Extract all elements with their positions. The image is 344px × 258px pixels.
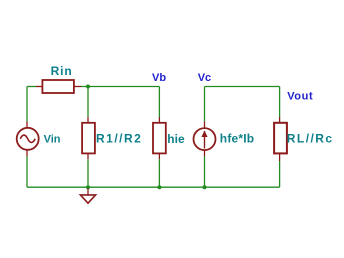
wire RL//Rc branch: [279, 87, 281, 188]
svg-text:hie: hie: [167, 132, 185, 146]
svg-text:Vout: Vout: [287, 91, 313, 103]
resistor RL//Rc: [274, 117, 287, 161]
resistor R1//R2: [82, 117, 95, 159]
svg-text:Rin: Rin: [51, 64, 73, 78]
junction node hie bottom: [157, 185, 161, 189]
svg-text:Vb: Vb: [152, 72, 166, 84]
junction node current source bottom: [203, 185, 207, 189]
svg-text:R1//R2: R1//R2: [96, 132, 142, 146]
wire hie branch: [158, 87, 160, 188]
wire R1//R2 branch: [87, 87, 89, 188]
voltage source Vin: [17, 122, 39, 157]
wire top-right rail Vc to Vout: [205, 86, 280, 88]
wire bottom rail: [27, 186, 280, 188]
resistor hie: [153, 117, 166, 159]
svg-text:RL//Rc: RL//Rc: [287, 132, 334, 146]
current source hfe*Ib: [194, 121, 216, 156]
junction node at Rin/R1//R2 top: [86, 85, 90, 89]
wire current source branch: [204, 87, 206, 188]
wire top-left rail Vin to Vb: [27, 86, 159, 88]
junction node ground: [86, 185, 90, 189]
ground: [80, 189, 95, 204]
svg-text:Vc: Vc: [198, 72, 211, 84]
svg-text:Vin: Vin: [44, 134, 61, 146]
resistor Rin: [36, 80, 81, 93]
svg-text:hfe*Ib: hfe*Ib: [220, 132, 255, 146]
wire left branch Vin vertical: [26, 87, 28, 188]
